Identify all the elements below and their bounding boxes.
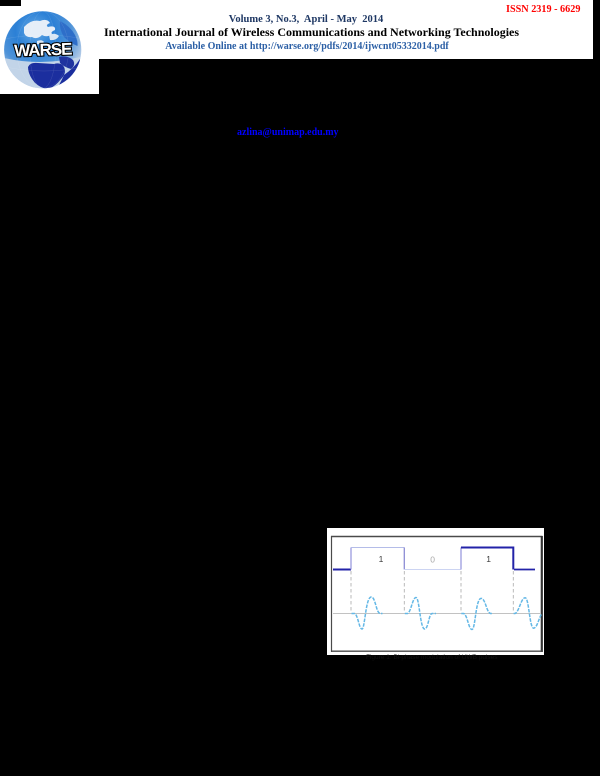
faint graticule (5, 11, 84, 88)
north pale land (Europe/Greenland) (24, 20, 55, 38)
header white band (0, 0, 593, 59)
ISSN top right (506, 4, 580, 15)
faint figure caption (366, 654, 498, 661)
dashed bit boundaries (351, 571, 513, 613)
wavelets (352, 597, 542, 630)
svg-text:1: 1 (379, 554, 384, 564)
volume line (106, 14, 506, 25)
digital waveform (333, 548, 535, 570)
frame left (331, 536, 333, 652)
frame bottom (331, 650, 543, 652)
globe sphere (4, 11, 81, 88)
journal title (104, 25, 519, 40)
bottom-right dark mass (56, 59, 80, 90)
logo white box (0, 0, 99, 94)
black notch top-left (0, 0, 21, 6)
svg-text:0: 0 (430, 555, 435, 565)
svg-text:WARSE: WARSE (14, 39, 73, 60)
frame top (331, 536, 543, 538)
Arabia dark land (59, 56, 74, 69)
email link (237, 127, 339, 138)
available online line (107, 41, 507, 52)
frame right (541, 536, 543, 652)
dark ocean patch upper right (60, 21, 78, 46)
Africa dark land (28, 63, 65, 89)
figure white box (327, 528, 544, 655)
WARSE globe logo (4, 11, 84, 91)
axis line (333, 613, 541, 615)
lower pale hemisphere (4, 56, 84, 91)
WARSE text (14, 39, 73, 60)
svg-text:1: 1 (486, 554, 491, 564)
